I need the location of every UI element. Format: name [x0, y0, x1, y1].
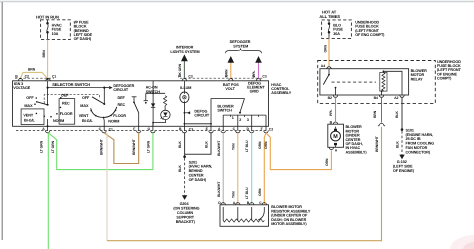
- svg-text:(LEFT SIDE: (LEFT SIDE: [393, 165, 413, 169]
- wire interior return bus: [184, 123, 211, 125]
- splice S101: [401, 128, 404, 131]
- svg-text:M: M: [333, 134, 338, 140]
- wire blower switch common: [211, 99, 244, 131]
- pin C bottom tan: [236, 131, 240, 133]
- switch 1 def/rec/floor/norm detail box: [59, 99, 75, 125]
- svg-text:HOT IN RUN: HOT IN RUN: [36, 15, 59, 20]
- wire BLK pin E to splice: [185, 133, 211, 154]
- pin C3 illum top: [182, 79, 186, 81]
- wire DK GRN to interior lights: [183, 61, 185, 78]
- I/P fuse block (dashed box): [41, 20, 71, 40]
- svg-text:BRN/WHT: BRN/WHT: [132, 138, 136, 155]
- svg-text:S101: S101: [406, 128, 414, 132]
- pin A motor: [329, 147, 333, 149]
- svg-text:3: 3: [247, 118, 249, 122]
- wire PPL relay B2 to motor B: [335, 97, 337, 121]
- svg-text:FAN MOTOR: FAN MOTOR: [406, 146, 428, 150]
- svg-text:VOLT: VOLT: [225, 87, 235, 91]
- wire BRN/WHT pin C long run down: [106, 133, 108, 241]
- svg-text:ILLUM: ILLUM: [180, 86, 191, 90]
- pin A4 relay: [327, 67, 331, 69]
- svg-text:ORN: ORN: [323, 45, 327, 53]
- svg-text:ORN: ORN: [325, 158, 329, 166]
- svg-text:B4: B4: [374, 96, 378, 100]
- svg-text:BLK: BLK: [204, 141, 208, 148]
- label underhood fuse block location: [355, 20, 385, 37]
- svg-text:BRN/WHT: BRN/WHT: [375, 135, 379, 152]
- diode in A/C circuit: [152, 93, 154, 126]
- wire blower switch M1 to pin: [237, 115, 239, 131]
- svg-text:OFF: OFF: [26, 96, 34, 100]
- ground G102: [399, 155, 404, 160]
- pin C bottom C1: [102, 131, 106, 133]
- wire coil bottom to B4: [382, 91, 384, 95]
- relay mechanical link dashed: [332, 81, 377, 83]
- svg-text:A2: A2: [394, 96, 398, 100]
- svg-text:REC: REC: [118, 103, 126, 107]
- svg-text:CIRCUIT: CIRCUIT: [194, 114, 209, 118]
- wire BLK relay A2 down: [401, 97, 403, 128]
- svg-text:LT GRN: LT GRN: [147, 140, 151, 153]
- splice S201: [183, 155, 186, 158]
- wire selector feed rail: [47, 81, 49, 88]
- svg-text:C3: C3: [188, 75, 192, 79]
- svg-text:RELAY: RELAY: [411, 77, 424, 81]
- pin A bat top: [229, 79, 233, 81]
- wire A/C output to pin G: [152, 123, 154, 131]
- svg-text:DK GRN: DK GRN: [178, 63, 182, 77]
- underhood fuse block main dashed box: [318, 61, 436, 104]
- svg-text:LT BLU: LT BLU: [245, 187, 249, 199]
- svg-text:G-102: G-102: [397, 160, 407, 164]
- svg-text:G204: G204: [180, 202, 190, 206]
- blower switch contact bar: [223, 114, 266, 116]
- wire LED return: [153, 120, 165, 123]
- svg-text:G: G: [148, 127, 151, 131]
- svg-text:GRID: GRID: [250, 90, 259, 94]
- pin B motor: [333, 122, 337, 124]
- svg-text:VOLTAGE: VOLTAGE: [13, 86, 31, 90]
- resistor elements: [222, 207, 224, 221]
- svg-text:MAX: MAX: [80, 104, 89, 108]
- svg-text:C2: C2: [25, 75, 29, 79]
- svg-text:C1: C1: [109, 128, 113, 132]
- svg-text:BRN: BRN: [373, 110, 377, 118]
- wire BRN fuse to HVAC: [47, 40, 49, 80]
- pin A bottom C1: [45, 131, 49, 133]
- wire ORN fuse to relay A4: [328, 38, 330, 66]
- blower motor symbol: [331, 131, 341, 141]
- A/C indicator LED: [161, 110, 170, 119]
- svg-text:ORN: ORN: [224, 69, 228, 77]
- fuse HVAC 10A: [46, 20, 62, 40]
- svg-text:BRACKET): BRACKET): [176, 220, 196, 224]
- svg-text:10A: 10A: [52, 32, 59, 36]
- svg-text:LT GRN: LT GRN: [51, 140, 55, 153]
- wire BLK/WHT to resistor D: [222, 133, 224, 205]
- svg-text:FLOOR: FLOOR: [60, 112, 73, 116]
- svg-text:F: F: [261, 127, 263, 131]
- svg-text:DEF: DEF: [118, 96, 126, 100]
- svg-text:LT BLU: LT BLU: [245, 140, 249, 152]
- wire BRN/WHT bottom run to relay B4: [107, 127, 382, 241]
- wire BLK splice to G102: [401, 131, 403, 155]
- connector C1/C2 top dashed line: [15, 77, 54, 79]
- wire BRN branch to pin B: [21, 72, 48, 78]
- wire BLK pin B to splice: [184, 133, 186, 157]
- selector switch wafer 1 wiper: [47, 88, 49, 105]
- svg-text:C3: C3: [262, 75, 266, 79]
- wire LT GRN pin A to pin G: [48, 133, 153, 170]
- svg-text:SUPPORT: SUPPORT: [176, 215, 194, 219]
- svg-text:MAX: MAX: [24, 104, 33, 108]
- svg-text:BLK/WHT: BLK/WHT: [217, 140, 221, 156]
- pin B4 relay: [379, 95, 383, 97]
- blower motor relay box: [320, 69, 409, 95]
- label I/P fuse block location: [74, 20, 93, 41]
- svg-text:SYSTEM: SYSTEM: [233, 44, 248, 48]
- wire switch1 output to pin A: [47, 119, 49, 131]
- svg-text:BRN: BRN: [42, 50, 46, 58]
- svg-text:BI-G/L: BI-G/L: [24, 119, 36, 123]
- relay switch contact: [328, 69, 330, 74]
- svg-text:BRN: BRN: [28, 68, 36, 72]
- svg-text:C2: C2: [269, 128, 273, 132]
- svg-text:30A: 30A: [333, 32, 340, 36]
- svg-text:FLOOR: FLOOR: [113, 114, 126, 118]
- wire ORN pin F to blower motor: [266, 133, 331, 170]
- svg-text:PPL: PPL: [252, 71, 256, 77]
- svg-text:(ENGINE HARN,: (ENGINE HARN,: [406, 133, 434, 137]
- svg-text:S201: S201: [189, 160, 197, 164]
- switch 2 contact arc: [91, 107, 117, 118]
- svg-text:BEHIND: BEHIND: [189, 169, 203, 173]
- pin E bottom C3: [209, 131, 213, 133]
- underhood fuse block top (dashed box): [322, 20, 352, 39]
- svg-text:CIRCUIT: CIRCUIT: [113, 88, 128, 92]
- svg-text:OFF: OFF: [82, 96, 90, 100]
- node defogger tap: [103, 87, 105, 89]
- pin B bottom C3: [182, 131, 186, 133]
- blower motor box: [328, 124, 344, 147]
- switch 2 position contacts: [90, 110, 92, 112]
- svg-text:BI-G/L: BI-G/L: [82, 119, 94, 123]
- svg-text:C3: C3: [189, 128, 193, 132]
- pin F bottom C1: [137, 131, 141, 133]
- svg-text:LIGHTS SYSTEM: LIGHTS SYSTEM: [170, 50, 199, 54]
- svg-text:PPL: PPL: [329, 110, 333, 116]
- pin G bottom C1: [151, 131, 155, 133]
- HVAC control assembly box: [13, 81, 269, 127]
- svg-text:BLK/WHT: BLK/WHT: [217, 181, 221, 197]
- svg-text:CONNECTOR): CONNECTOR): [406, 150, 431, 154]
- pin B2 relay: [333, 95, 337, 97]
- wire LT BLU to resistor B: [251, 133, 253, 205]
- pin F bottom C2 orn: [264, 131, 268, 133]
- mechanical linkage dashed: [44, 95, 99, 104]
- fuse BLO 30A: [328, 20, 344, 39]
- pin A bottom resistor feed: [221, 131, 225, 133]
- label DEFOG CIRCUIT with arrow: [184, 112, 186, 114]
- pin A2 relay: [400, 95, 404, 97]
- svg-text:ORN: ORN: [258, 141, 262, 149]
- resistor in A/C indicator branch: [164, 96, 167, 106]
- svg-text:NORM: NORM: [53, 119, 64, 123]
- svg-text:OF DASH): OF DASH): [74, 37, 92, 41]
- selector switch wafer 2 wiper: [103, 88, 105, 104]
- relay coil: [380, 72, 387, 91]
- svg-text:ORN: ORN: [264, 141, 268, 149]
- svg-text:OF DASH): OF DASH): [189, 178, 207, 182]
- wire ORN to defogger system: [230, 62, 232, 78]
- svg-text:ORN: ORN: [258, 188, 262, 196]
- svg-text:TAN: TAN: [231, 191, 235, 198]
- svg-text:COMPT): COMPT): [437, 77, 452, 81]
- svg-text:VENT: VENT: [23, 113, 33, 117]
- svg-text:VENT: VENT: [79, 114, 89, 118]
- svg-text:TAN: TAN: [231, 143, 235, 150]
- svg-text:BLK: BLK: [395, 111, 399, 118]
- svg-text:NORM: NORM: [108, 120, 119, 124]
- wire BRN/WHT jumper pin C to pin F: [104, 133, 139, 164]
- wire blower switch low to pin: [222, 115, 224, 131]
- arrow to defogger circuit: [104, 87, 109, 89]
- svg-text:25-DC IB: 25-DC IB: [406, 137, 421, 141]
- inline connector on B4 wire: [379, 123, 384, 125]
- svg-text:F: F: [133, 127, 135, 131]
- pin C1: [46, 79, 50, 81]
- svg-text:1: 1: [232, 116, 234, 120]
- connector bottom dashed line: [16, 130, 269, 132]
- svg-text:FROM COOLING: FROM COOLING: [406, 142, 435, 146]
- wire LT GRN pin A down: [47, 133, 49, 249]
- defogger switch: [132, 96, 137, 98]
- wire lamp return: [183, 103, 185, 131]
- ground G204: [182, 195, 187, 200]
- wire TAN to resistor A: [237, 133, 239, 205]
- pin B of C2: [18, 79, 22, 81]
- svg-text:INTERIOR: INTERIOR: [176, 45, 194, 49]
- node selector feed: [47, 87, 49, 89]
- svg-text:REC: REC: [62, 102, 70, 106]
- wire coil top to A2: [383, 71, 402, 95]
- svg-text:(HVAC HARN,: (HVAC HARN,: [189, 165, 213, 169]
- svg-text:OF ENG COMPT): OF ENG COMPT): [355, 33, 385, 37]
- wire BRN relay B4 down: [381, 97, 383, 122]
- svg-text:MOTOR ASSEMBLY): MOTOR ASSEMBLY): [271, 222, 307, 226]
- wire ORN pin F to resistor C: [264, 133, 266, 205]
- A/C on switch: [144, 81, 166, 104]
- svg-text:CENTER: CENTER: [189, 174, 204, 178]
- svg-text:BRN/WHT: BRN/WHT: [100, 138, 104, 155]
- svg-text:DEF: DEF: [61, 94, 69, 98]
- switch 1 vent/bi-level detail box: [21, 109, 44, 125]
- svg-text:BLK: BLK: [178, 141, 182, 148]
- svg-text:BLK: BLK: [396, 141, 400, 148]
- svg-text:ALL TIMES: ALL TIMES: [319, 14, 340, 19]
- switch 1 position contacts: [36, 97, 38, 99]
- blower motor resistor assembly box: [220, 205, 269, 227]
- svg-text:COLUMN: COLUMN: [177, 211, 193, 215]
- svg-text:BLK: BLK: [178, 165, 182, 172]
- svg-text:SWITCH: SWITCH: [217, 109, 232, 113]
- svg-text:ASSEMBLY: ASSEMBLY: [271, 91, 291, 95]
- svg-text:A4: A4: [321, 64, 325, 68]
- svg-text:(ON STEERING: (ON STEERING: [173, 207, 199, 211]
- wire BLK splice to G204: [184, 158, 186, 195]
- resistor pins: [221, 203, 225, 205]
- svg-text:SELECTOR SWITCH: SELECTOR SWITCH: [52, 82, 90, 87]
- svg-text:B2: B2: [328, 96, 332, 100]
- pin D defog top: [256, 79, 260, 81]
- svg-text:OF ENGINE): OF ENGINE): [393, 169, 415, 173]
- wire PPL to defogger system: [258, 62, 260, 78]
- wire blower switch high to pin: [265, 115, 267, 131]
- wire blower switch M2 to pin: [251, 115, 253, 131]
- svg-text:LT GRN: LT GRN: [39, 140, 43, 153]
- svg-text:C1: C1: [52, 75, 56, 79]
- svg-text:ASSEMBLY): ASSEMBLY): [346, 150, 368, 154]
- svg-text:2: 2: [239, 118, 241, 122]
- pin D bottom lt blu: [250, 131, 254, 133]
- wire switch2 output to pin C: [103, 117, 106, 130]
